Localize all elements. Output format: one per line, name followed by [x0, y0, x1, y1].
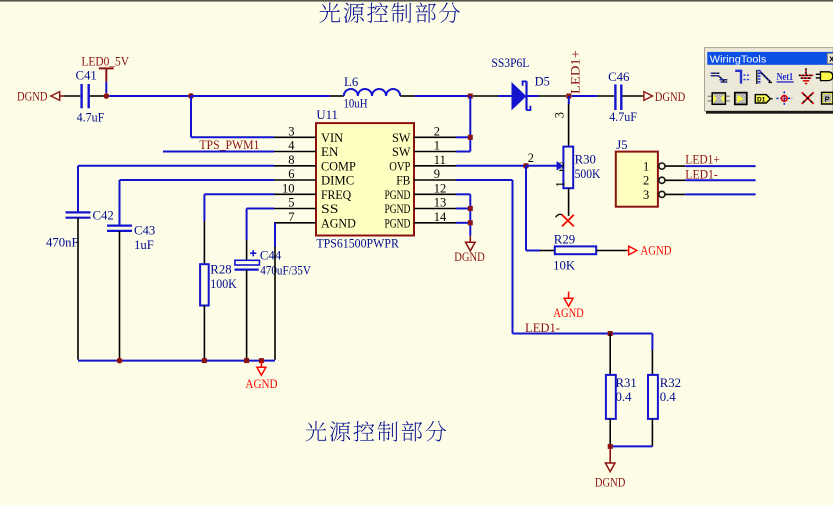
svg-text:470uF/35V: 470uF/35V: [260, 263, 311, 277]
svg-text:C44: C44: [260, 249, 282, 263]
svg-text:R31: R31: [616, 376, 637, 390]
svg-text:DGND: DGND: [595, 475, 626, 489]
svg-text:U11: U11: [316, 108, 338, 122]
svg-text:R28: R28: [210, 263, 231, 277]
svg-text:R29: R29: [554, 232, 575, 246]
svg-text:7: 7: [288, 210, 294, 224]
svg-text:AGND: AGND: [553, 306, 583, 320]
svg-text:4.7uF: 4.7uF: [77, 110, 105, 124]
svg-text:3: 3: [288, 125, 294, 139]
svg-text:4: 4: [288, 139, 295, 153]
svg-text:PGND: PGND: [385, 187, 411, 202]
svg-text:3: 3: [643, 188, 649, 202]
svg-text:C43: C43: [134, 223, 155, 237]
svg-text:6: 6: [288, 167, 294, 181]
svg-text:D5: D5: [535, 74, 550, 88]
svg-text:VIN: VIN: [321, 130, 344, 145]
svg-text:LED1-: LED1-: [525, 321, 560, 335]
svg-text:LED1+: LED1+: [568, 50, 582, 94]
svg-text:2: 2: [434, 125, 440, 139]
svg-text:FREQ: FREQ: [321, 187, 352, 202]
svg-text:J5: J5: [616, 138, 627, 152]
svg-text:2: 2: [528, 151, 534, 165]
svg-text:WiringTools: WiringTools: [710, 54, 767, 65]
svg-text:R32: R32: [660, 376, 681, 390]
svg-text:C46: C46: [608, 70, 630, 84]
svg-text:AGND: AGND: [245, 377, 277, 391]
svg-text:OVP: OVP: [389, 158, 410, 173]
svg-text:C41: C41: [76, 68, 97, 82]
svg-text:x: x: [829, 54, 833, 64]
svg-text:COMP: COMP: [321, 158, 356, 173]
svg-text:10uH: 10uH: [344, 96, 368, 110]
svg-text:TPS_PWM1: TPS_PWM1: [199, 138, 259, 152]
svg-text:1: 1: [434, 139, 440, 153]
svg-text:SW: SW: [392, 144, 411, 159]
svg-text:PGND: PGND: [385, 215, 411, 230]
svg-text:470nF: 470nF: [46, 236, 79, 250]
svg-text:EN: EN: [321, 144, 339, 159]
svg-text:LED0_5V: LED0_5V: [81, 54, 129, 68]
svg-text:DIMC: DIMC: [321, 173, 354, 188]
svg-text:10K: 10K: [553, 259, 576, 273]
svg-text:10: 10: [282, 182, 295, 196]
svg-text:SS3P6L: SS3P6L: [491, 56, 529, 70]
svg-text:1uF: 1uF: [134, 238, 154, 252]
svg-text:SS: SS: [321, 201, 338, 216]
svg-text:2: 2: [643, 174, 649, 188]
svg-text:LED1-: LED1-: [685, 168, 718, 182]
svg-text:AGND: AGND: [641, 244, 672, 258]
svg-text:DGND: DGND: [17, 89, 48, 103]
svg-text:DGND: DGND: [655, 90, 686, 104]
svg-text:4.7uF: 4.7uF: [609, 110, 637, 124]
svg-text:PGND: PGND: [385, 201, 411, 216]
svg-text:12: 12: [434, 182, 447, 196]
svg-text:2: 2: [559, 160, 565, 174]
svg-text:9: 9: [434, 167, 440, 181]
svg-text:13: 13: [434, 196, 447, 210]
svg-text:D1: D1: [757, 97, 766, 104]
svg-text:AGND: AGND: [321, 215, 356, 230]
svg-text:5: 5: [288, 196, 294, 210]
svg-text:DGND: DGND: [454, 250, 485, 264]
svg-text:11: 11: [434, 153, 446, 167]
svg-text:L6: L6: [344, 75, 359, 89]
svg-text:500K: 500K: [575, 167, 601, 181]
svg-text:1: 1: [643, 160, 649, 174]
svg-text:0.4: 0.4: [660, 390, 677, 404]
svg-text:TPS61500PWPR: TPS61500PWPR: [316, 237, 399, 251]
svg-text:P: P: [825, 94, 830, 103]
svg-text:FB: FB: [396, 173, 410, 188]
svg-text:C42: C42: [93, 208, 114, 222]
svg-text:SW: SW: [392, 130, 411, 145]
svg-text:100K: 100K: [210, 277, 237, 291]
svg-text:0.4: 0.4: [616, 390, 633, 404]
svg-text:14: 14: [434, 210, 447, 224]
svg-text:1: 1: [554, 181, 568, 187]
svg-text:8: 8: [288, 153, 294, 167]
svg-text:3: 3: [553, 112, 567, 118]
svg-text:R30: R30: [575, 153, 596, 167]
svg-text:LED1+: LED1+: [685, 152, 720, 166]
